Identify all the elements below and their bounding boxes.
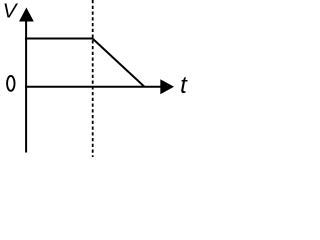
V axis arrowhead <box>19 8 34 22</box>
dashed vertical line (time marker) <box>92 0 94 157</box>
t axis (horizontal axis line) <box>25 86 162 88</box>
signal trace: flat at V then linear ramp down to zero <box>25 39 144 87</box>
svg-text:t: t <box>180 72 188 99</box>
t axis arrowhead <box>160 79 174 94</box>
label 0 <box>7 76 15 91</box>
V axis (vertical axis line) <box>25 10 27 153</box>
svg-text:V: V <box>3 0 19 23</box>
